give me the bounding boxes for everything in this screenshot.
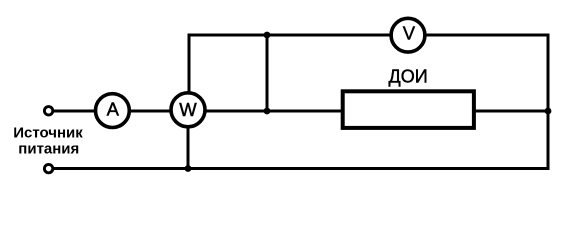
box DOI (device under measurement) (343, 91, 474, 128)
node junction bottom (wattmeter on bottom wire) (185, 165, 192, 172)
wire right vertical (547, 34, 550, 169)
voltmeter V (391, 18, 425, 52)
wire wattmeter bottom vertical (187, 111, 190, 169)
node junction right (middle wire on right vertical) (545, 108, 552, 115)
svg-text:A: A (107, 99, 120, 120)
wire left vertical (top wire to wattmeter) (188, 34, 191, 97)
svg-text:питания: питания (18, 140, 79, 157)
wire top horizontal (188, 34, 549, 37)
svg-text:V: V (403, 23, 416, 44)
svg-text:Источник: Источник (13, 124, 83, 141)
terminal upper (power source +) (44, 107, 52, 115)
wire bottom horizontal (54, 167, 550, 170)
terminal lower (power source -) (44, 164, 52, 172)
wattmeter W (171, 93, 205, 127)
wire V-branch vertical (266, 35, 269, 111)
svg-text:ДОИ: ДОИ (389, 66, 428, 86)
node junction top (V branch on top wire) (264, 32, 271, 39)
wire middle horizontal (source to DOI box) (54, 110, 548, 113)
node junction middle (V branch on middle wire) (264, 108, 271, 115)
ammeter A (96, 94, 130, 128)
svg-text:W: W (179, 99, 197, 120)
